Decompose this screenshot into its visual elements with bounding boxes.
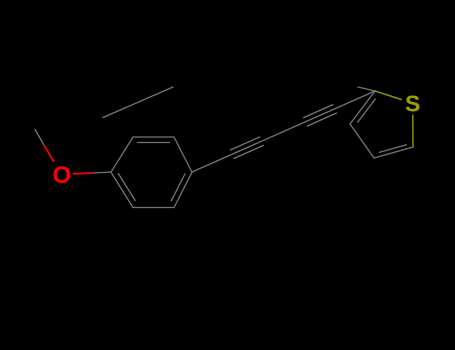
svg-text:S: S [405, 91, 420, 117]
svg-text:O: O [53, 162, 72, 189]
